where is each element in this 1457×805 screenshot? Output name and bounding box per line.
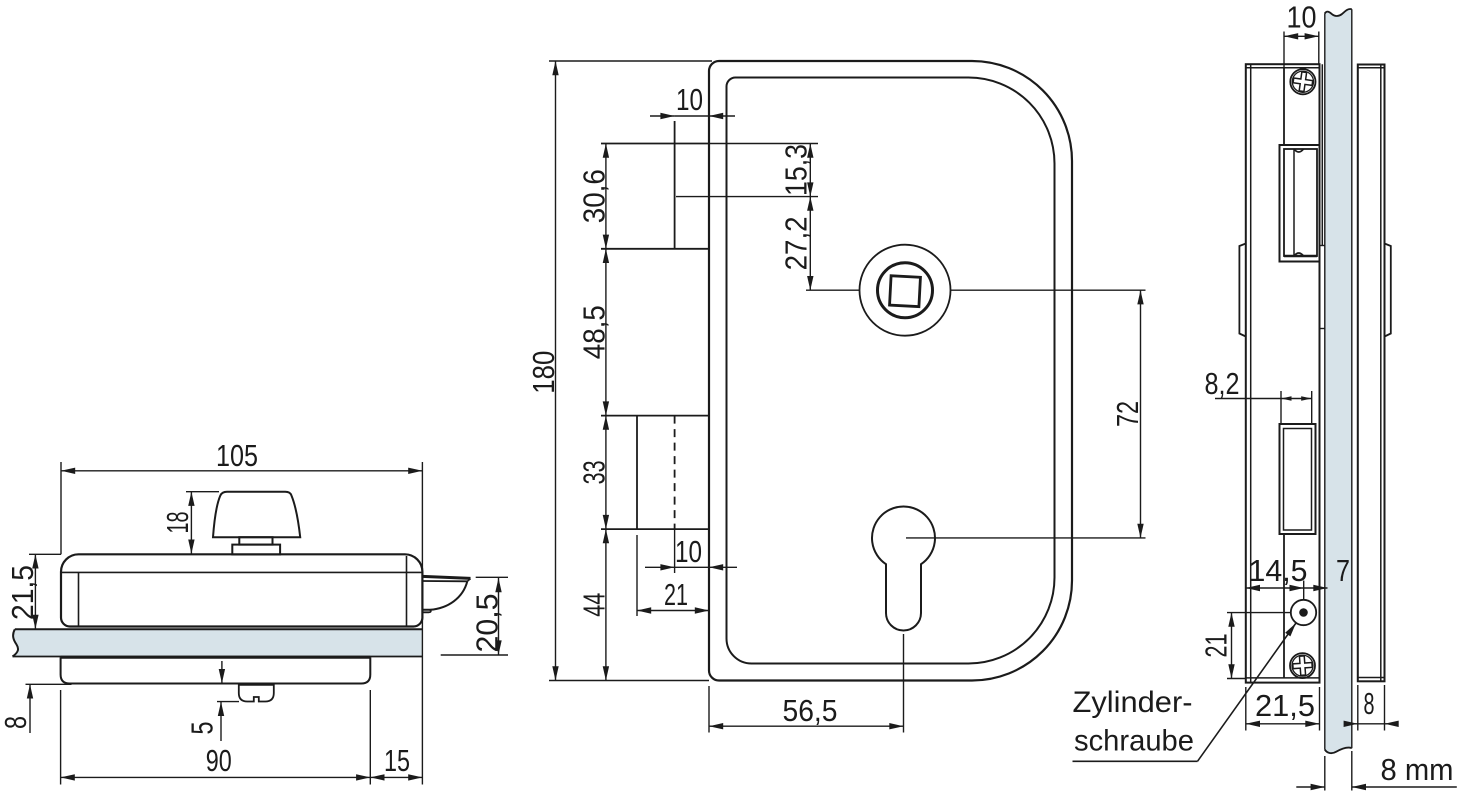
dimension 27,2 <box>809 197 811 291</box>
dimension 72 <box>1140 290 1142 538</box>
svg-text:15,3: 15,3 <box>779 144 814 196</box>
svg-text:schraube: schraube <box>1074 725 1194 758</box>
extension line square centre <box>806 289 1146 291</box>
svg-text:44: 44 <box>576 593 611 617</box>
dimension 8 (lower body height) <box>26 684 72 733</box>
dimension 21 (screw height, side view) <box>1227 613 1291 679</box>
dimension 10 (upper tab width) <box>650 115 735 117</box>
svg-text:27,2: 27,2 <box>779 216 814 270</box>
lock case inner outline (front view) <box>727 78 1055 664</box>
latch slot (side view upper) <box>1280 145 1320 262</box>
spindle hub outer circle <box>860 245 951 336</box>
svg-text:21,5: 21,5 <box>5 565 40 620</box>
dimension 5 (keeper height) <box>217 661 239 741</box>
svg-text:8,2: 8,2 <box>1205 366 1240 401</box>
svg-text:7: 7 <box>1336 553 1350 588</box>
upper faceplate tab (front view) <box>601 121 709 249</box>
svg-text:14,5: 14,5 <box>1249 553 1308 588</box>
dimension 90 (left view bottom) <box>61 690 371 785</box>
dimension 21,5 (left view body height) <box>29 554 61 629</box>
svg-text:8: 8 <box>1364 686 1375 721</box>
screw head bottom (side view) <box>1290 653 1315 678</box>
knob (left view) <box>213 492 300 538</box>
node line 15,3 boundary <box>676 196 818 198</box>
svg-text:21: 21 <box>664 577 688 612</box>
dimension 56,5 (keyhole position) <box>709 634 904 733</box>
dimension 20,5 (latch drop, right of left view) <box>441 577 508 655</box>
dimension 15,3 <box>809 144 811 197</box>
svg-text:21,5: 21,5 <box>1255 688 1315 723</box>
svg-text:33: 33 <box>576 460 611 484</box>
svg-text:8: 8 <box>0 716 33 729</box>
dimension 7 (screw to glass) <box>1304 587 1328 589</box>
dimension 15 (left view bottom right) <box>370 776 422 778</box>
knob neck <box>239 537 272 544</box>
dimension 10 (faceplate width, side view) <box>1284 32 1319 68</box>
dimension 8,2 (cylinder slot width) <box>1215 391 1312 424</box>
cylinder slot (side view lower) <box>1280 424 1316 534</box>
latch bolt (left view right side) <box>422 576 470 612</box>
euro cylinder keyhole <box>872 507 935 631</box>
lock body upper half (left view) <box>61 554 422 626</box>
latch keeper plate (left view bottom) <box>239 684 274 701</box>
spindle square hole <box>890 276 921 307</box>
svg-text:10: 10 <box>676 82 703 117</box>
screw head top (side view) <box>1290 69 1315 94</box>
knob base <box>232 545 280 555</box>
extension line keyhole centre <box>906 537 1146 539</box>
lock body lower half (left view) <box>61 657 371 683</box>
dimension 14,5 (screw position) <box>1246 581 1304 600</box>
svg-text:18: 18 <box>160 512 195 534</box>
svg-text:72: 72 <box>1110 401 1145 427</box>
dimension 180 (front view overall height) <box>549 61 712 681</box>
dimension 21 (lower tab width) <box>637 535 709 616</box>
hub bump right (side view) <box>1385 244 1391 337</box>
faceplate edge lines (side view) <box>1283 68 1285 678</box>
svg-text:56,5: 56,5 <box>783 693 838 728</box>
dimension chain line (30,6 / 48,5 / 33 / 44) <box>605 144 607 681</box>
dimension 10 (lower, dashed line to case edge) <box>645 529 737 573</box>
svg-text:21: 21 <box>1199 634 1234 658</box>
svg-text:15: 15 <box>384 743 410 778</box>
lock case outer outline (front view) <box>709 61 1072 681</box>
svg-text:105: 105 <box>216 438 258 473</box>
extension line 15,3 top <box>709 143 818 145</box>
dimension 18 (knob height) <box>186 492 219 554</box>
lower faceplate tab (front view) <box>601 416 709 529</box>
svg-text:48,5: 48,5 <box>576 305 611 359</box>
svg-text:30,6: 30,6 <box>576 169 611 223</box>
dimension 8 mm (glass thickness) <box>1296 751 1457 791</box>
dimension 21,5 (plate width, side view) <box>1246 687 1320 731</box>
glass pane (side view) <box>1325 9 1352 753</box>
svg-text:180: 180 <box>526 351 561 394</box>
label Zylinderschraube <box>1073 623 1297 761</box>
spindle hub inner circle <box>878 263 933 318</box>
svg-text:8 mm: 8 mm <box>1381 752 1454 787</box>
glass pane (left view) <box>13 629 423 656</box>
cover plate (side view, opposite side) <box>1358 65 1385 682</box>
lock plate (side view, lock side) <box>1246 64 1325 682</box>
cylinder screw (side view) <box>1291 600 1316 625</box>
svg-text:5: 5 <box>185 722 220 735</box>
svg-text:10: 10 <box>1287 0 1317 35</box>
svg-text:Zylinder-: Zylinder- <box>1073 686 1193 719</box>
svg-text:20,5: 20,5 <box>470 594 505 653</box>
dimension 105 (left view top) <box>61 462 422 785</box>
hub bump left (side view) <box>1239 244 1245 337</box>
dimension 8 (cover plate width) <box>1344 685 1399 731</box>
svg-text:10: 10 <box>675 534 702 569</box>
svg-text:90: 90 <box>206 743 232 778</box>
